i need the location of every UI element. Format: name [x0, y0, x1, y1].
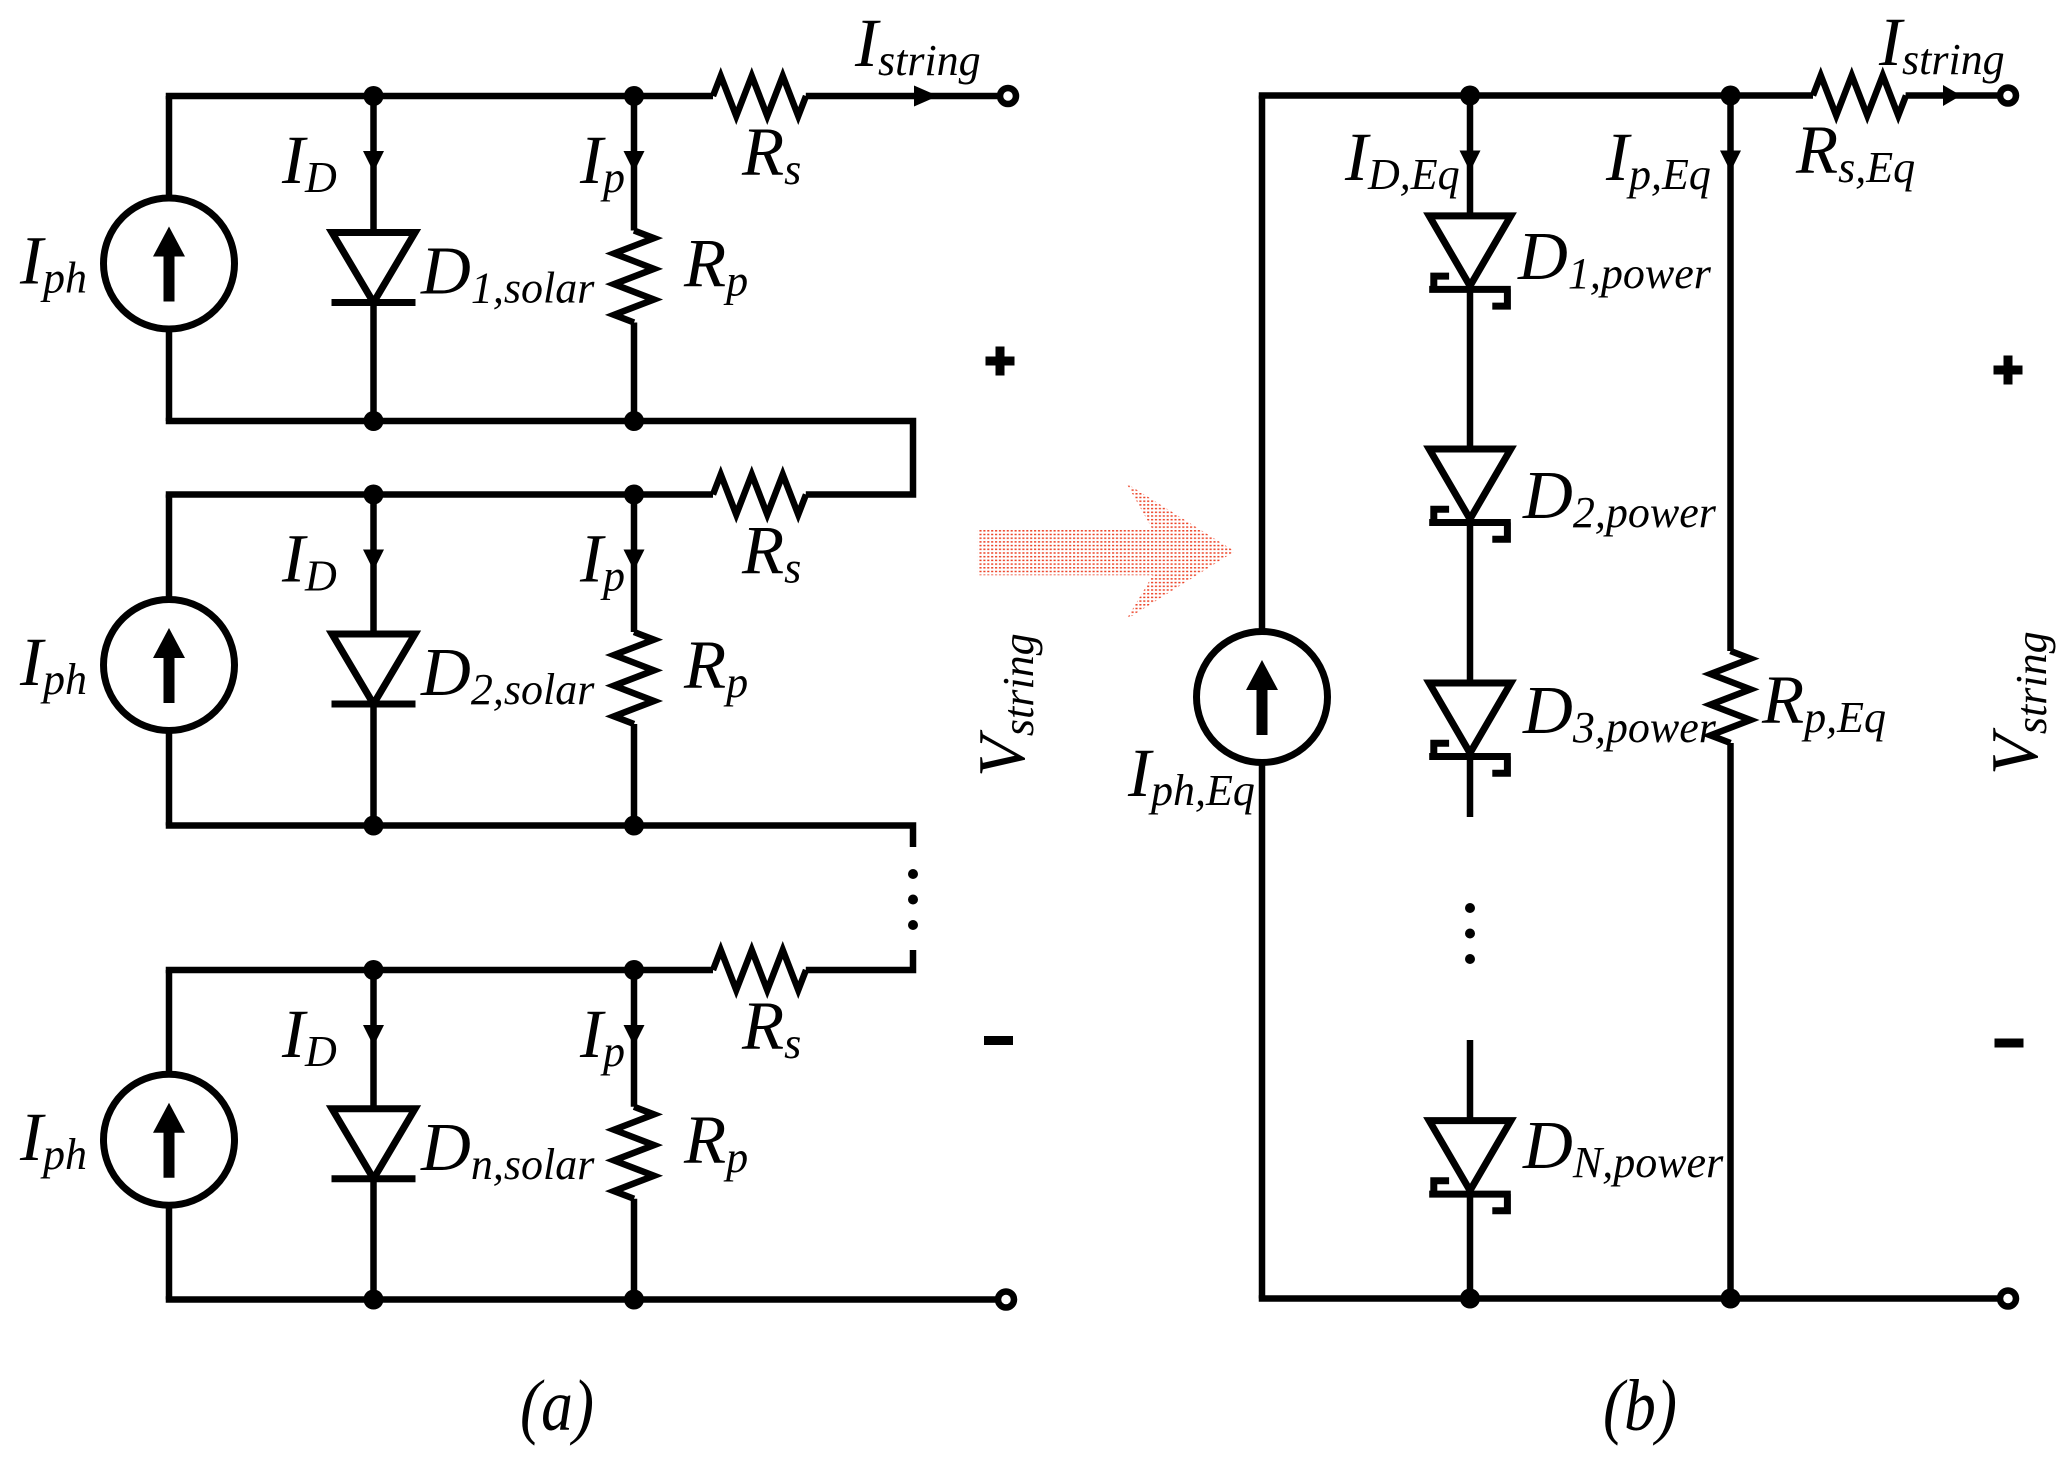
wire: cell2 left top	[166, 495, 173, 600]
wire: cell3 diode branch lower	[370, 1179, 377, 1300]
current source Iph,Eq	[1197, 632, 1328, 763]
wire: cell3 Rp branch lower	[631, 1199, 638, 1300]
resistor Rs (cell 2)	[713, 475, 806, 515]
wire: between D1 and D2	[1467, 289, 1474, 449]
node junction on bottom bus at Rp branch (cell 1)	[624, 411, 644, 431]
wire: cell2 Rp branch upper	[631, 495, 638, 633]
wire: diode chain top segment	[1467, 96, 1474, 216]
current source Iph (cell 3)	[104, 1074, 235, 1205]
node: output terminal + (b)	[2000, 88, 2016, 104]
wire: above DN	[1467, 1040, 1474, 1121]
wire: cell1 left bottom	[166, 329, 173, 421]
node junction bottom bus diode chain	[1460, 1289, 1480, 1309]
node: output terminal - (b)	[2000, 1291, 2016, 1307]
current arrow on I_string output wire	[914, 86, 938, 107]
current arrow I_D,Eq	[1460, 151, 1481, 172]
power diode D1,power	[1429, 216, 1511, 306]
ellipsis dots between cell2 and cell3	[908, 869, 918, 879]
diode D_n,solar	[332, 1109, 416, 1179]
node junction top bus diode chain	[1460, 86, 1480, 106]
resistor Rp,Eq	[1711, 651, 1751, 743]
svg-text:(a): (a)	[520, 1365, 594, 1446]
wire: cell3 Rp branch upper	[631, 970, 638, 1107]
svg-text:(b): (b)	[1603, 1365, 1677, 1446]
wire: cell1 top bus	[166, 93, 713, 100]
node junction on top bus at Rp branch (cell 1)	[624, 86, 644, 106]
wire: cell1 left top	[166, 96, 173, 198]
minus sign (b)	[1995, 1039, 2024, 1048]
wire: cell3 left bottom	[166, 1205, 173, 1299]
node junction on bottom bus at diode branch (cell 1)	[364, 411, 384, 431]
current arrow on I_string output wire (b)	[1943, 85, 1961, 106]
wire: Rp,Eq branch upper	[1727, 96, 1734, 652]
node junction on top bus at Rp branch (cell 3)	[624, 960, 644, 980]
transform arrow (dotted pink)	[978, 483, 1235, 619]
wire: (b) top bus	[1259, 92, 1813, 99]
ellipsis dots in diode chain	[1465, 903, 1475, 913]
wire: cell3 Rs to series corner	[806, 950, 913, 970]
wire: (b) Rs,Eq to terminal	[1906, 92, 2000, 99]
resistor Rs,Eq	[1813, 76, 1906, 116]
current arrow I_p,Eq	[1720, 151, 1741, 172]
node junction bottom bus Rp,Eq	[1721, 1289, 1741, 1309]
resistor Rp (cell 2)	[614, 632, 654, 724]
resistor Rp (cell 3)	[614, 1107, 654, 1199]
node junction top bus Rp,Eq	[1721, 86, 1741, 106]
node: output terminal + (a)	[1000, 88, 1016, 104]
node junction on bottom bus at Rp branch (cell 3)	[624, 1290, 644, 1310]
node junction on bottom bus at Rp branch (cell 2)	[624, 816, 644, 836]
current arrow I_p (cell 3)	[624, 1025, 645, 1046]
node junction on top bus at diode branch (cell 1)	[364, 86, 384, 106]
node junction on bottom bus at diode branch (cell 3)	[364, 1290, 384, 1310]
resistor Rp (cell 1)	[614, 231, 654, 323]
plus sign (a)	[986, 357, 1015, 366]
current arrow I_p (cell 1)	[624, 151, 645, 172]
wire: cell1 diode branch upper	[370, 96, 377, 233]
wire: cell1 Rp branch lower	[631, 323, 638, 422]
wire: cell2 left bottom	[166, 731, 173, 826]
current source Iph (cell 1)	[104, 198, 235, 329]
minus sign (a)	[984, 1036, 1013, 1045]
wire: (b) left rail lower	[1259, 763, 1266, 1299]
wire: cell2 top bus	[166, 491, 713, 498]
wire: cell2 bottom bus	[166, 826, 913, 848]
node: output terminal - (a)	[998, 1292, 1014, 1308]
wire: cell2 diode branch lower	[370, 704, 377, 826]
power diode DN,power	[1429, 1121, 1511, 1211]
wire: cell1 Rp branch upper	[631, 96, 638, 231]
node junction on top bus at diode branch (cell 2)	[364, 485, 384, 505]
wire: cell1 diode branch lower	[370, 303, 377, 422]
wire: (b) left rail upper	[1259, 96, 1266, 632]
wire: cell3 left top	[166, 970, 173, 1074]
node junction on bottom bus at diode branch (cell 2)	[364, 816, 384, 836]
resistor Rs (cell 3)	[713, 950, 806, 990]
wire: cell2 Rp branch lower	[631, 724, 638, 826]
node junction on top bus at diode branch (cell 3)	[364, 960, 384, 980]
wire: Rp,Eq branch lower	[1727, 743, 1734, 1299]
wire: (b) bottom bus	[1259, 1295, 2000, 1302]
wire: cell2 diode branch upper	[370, 495, 377, 635]
wire: between D2 and D3	[1467, 523, 1474, 684]
diode D_2,solar	[332, 634, 416, 704]
current arrow I_D (cell 1)	[363, 151, 384, 172]
current arrow I_p (cell 2)	[624, 550, 645, 571]
wire: cell3 diode branch upper	[370, 970, 377, 1109]
wire: cell3 top bus	[166, 967, 713, 974]
wire: cell2 Rs to series corner	[166, 421, 913, 495]
wire: cell1 Rs to output terminal	[806, 93, 1000, 100]
wire: cell3 bottom bus to terminal	[166, 1296, 998, 1303]
current arrow I_D (cell 3)	[363, 1025, 384, 1046]
node junction on top bus at Rp branch (cell 2)	[624, 485, 644, 505]
power diode D2,power	[1429, 449, 1511, 539]
power diode D3,power	[1429, 683, 1511, 773]
wire: below DN	[1467, 1194, 1474, 1298]
wire: below D3	[1467, 757, 1474, 818]
resistor Rs (cell 1)	[713, 76, 806, 116]
plus sign (b)	[1994, 366, 2023, 375]
current source Iph (cell 2)	[104, 600, 235, 731]
diode D_1,solar	[332, 233, 416, 303]
current arrow I_D (cell 2)	[363, 550, 384, 571]
